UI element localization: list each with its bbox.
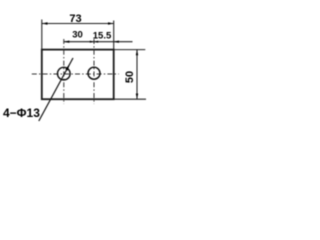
dim 50 extension line bottom (plate bottom edge extended) bbox=[114, 98, 146, 100]
dim 50 line bbox=[136, 50, 138, 100]
dim 30 arrow left bbox=[64, 41, 70, 43]
dim 73 arrow right bbox=[108, 22, 114, 24]
dim 50 extension line top (plate top edge extended) bbox=[114, 49, 146, 51]
leader line 4-Φ13 bbox=[39, 58, 73, 121]
dim arrows at hole2 center (butterfly) bbox=[90, 41, 94, 43]
svg-text:50: 50 bbox=[124, 71, 136, 83]
svg-text:30: 30 bbox=[72, 30, 83, 41]
hole 2 (Φ13) bbox=[88, 67, 100, 79]
dim 73 / 15.5 extension line right bbox=[113, 21, 115, 50]
dim 73 extension line left bbox=[41, 20, 43, 50]
svg-text:15.5: 15.5 bbox=[93, 31, 112, 42]
hole 1 center line vertical bbox=[63, 39, 65, 104]
plate outline bbox=[42, 50, 114, 100]
svg-text:4−Φ13: 4−Φ13 bbox=[3, 106, 40, 120]
dim 73 line bbox=[42, 23, 114, 25]
dim 50 arrow down bbox=[136, 94, 138, 100]
dim 30/15.5 line bbox=[64, 41, 133, 43]
hole center line horizontal bbox=[32, 73, 119, 75]
leader arrowhead bbox=[65, 64, 70, 71]
svg-text:73: 73 bbox=[69, 13, 81, 25]
dim 50 arrow up bbox=[136, 50, 138, 56]
dim 73 arrow left bbox=[42, 22, 48, 24]
hole 2 center line vertical bbox=[93, 39, 95, 104]
hole 1 (Φ13) bbox=[58, 67, 71, 80]
dim 15.5 arrow right (outside, pointing left) bbox=[114, 41, 119, 43]
